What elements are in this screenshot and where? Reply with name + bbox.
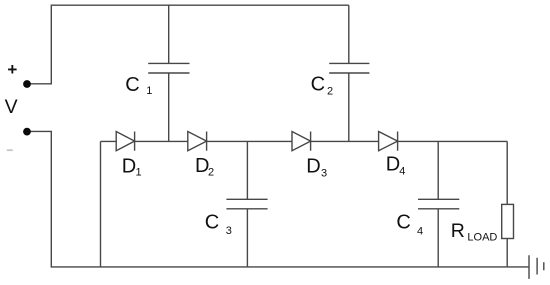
svg-text:R: R bbox=[451, 220, 465, 242]
svg-text:D: D bbox=[306, 156, 320, 178]
svg-text:V: V bbox=[5, 96, 18, 118]
svg-text:1: 1 bbox=[146, 85, 152, 97]
svg-text:+: + bbox=[7, 60, 17, 79]
svg-text:LOAD: LOAD bbox=[467, 232, 497, 244]
svg-text:D: D bbox=[122, 155, 136, 177]
svg-text:D: D bbox=[386, 154, 400, 176]
svg-text:1: 1 bbox=[136, 166, 142, 178]
svg-text:4: 4 bbox=[399, 165, 405, 177]
svg-text:2: 2 bbox=[327, 85, 333, 97]
svg-text:C: C bbox=[125, 74, 139, 96]
svg-text:2: 2 bbox=[208, 167, 214, 179]
svg-text:3: 3 bbox=[226, 225, 232, 237]
svg-text:C: C bbox=[205, 211, 219, 233]
svg-text:C: C bbox=[311, 74, 325, 96]
svg-text:4: 4 bbox=[417, 225, 423, 237]
svg-text:3: 3 bbox=[321, 168, 327, 180]
svg-text:C: C bbox=[396, 211, 410, 233]
